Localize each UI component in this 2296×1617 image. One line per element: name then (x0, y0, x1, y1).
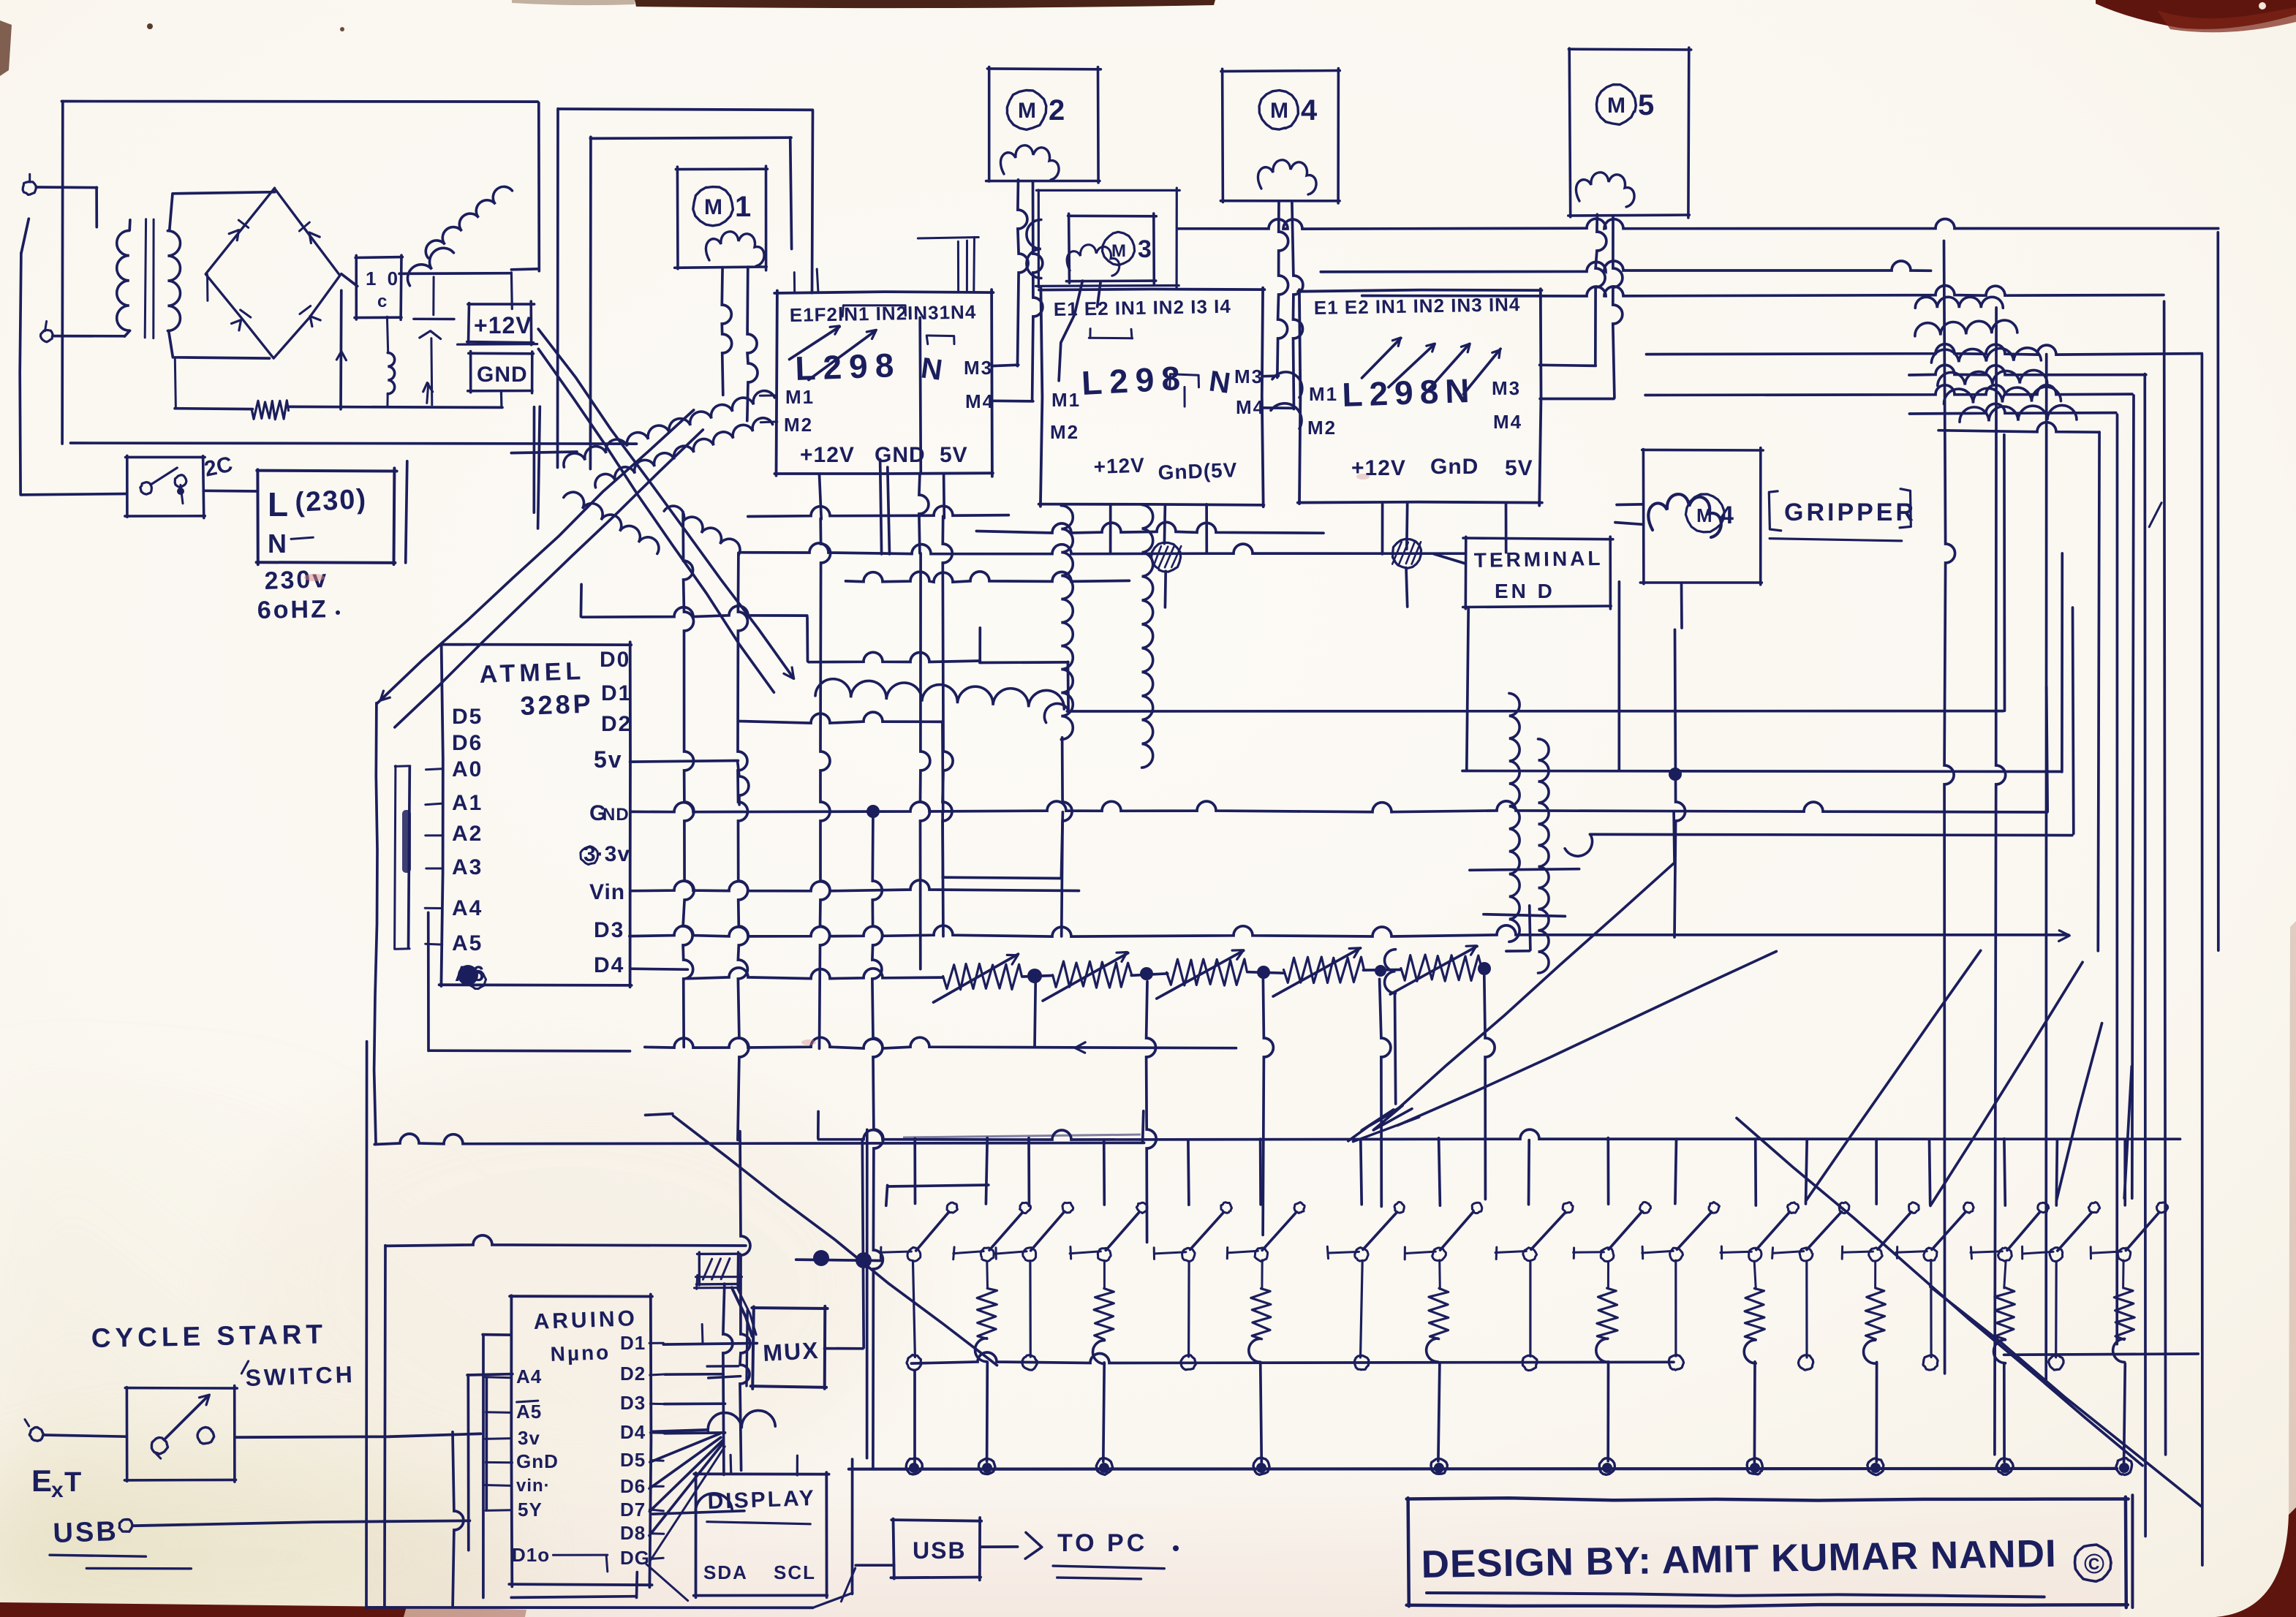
svg-text:5v: 5v (594, 746, 623, 773)
switch SW9 (1495, 1140, 1573, 1371)
photo background bottom-right rounded corner (2216, 921, 2296, 1617)
wire fan diag 4 (2124, 1067, 2131, 1198)
wire knot diag 2 (1397, 951, 1776, 1125)
nano pin D5 (620, 1449, 663, 1471)
wire bridge output down arrow (336, 290, 346, 409)
svg-text:2: 2 (1049, 94, 1065, 126)
wire bridge left stub (206, 274, 208, 300)
chip pin 5V (594, 746, 623, 773)
svg-text:D6: D6 (620, 1475, 646, 1497)
chip pin 33v (581, 842, 630, 866)
label L(230) (268, 484, 368, 523)
junction pot dot 3 (1257, 966, 1270, 979)
wire right vert 2660 (1944, 241, 1955, 1374)
svg-text:M2: M2 (784, 414, 813, 436)
label CYCLE START (91, 1319, 327, 1353)
wire pot feed left (687, 968, 943, 979)
svg-text:GRIPPER: GRIPPER (1784, 499, 1917, 526)
wire U1 M1 pin (760, 394, 777, 396)
svg-text:M2: M2 (1050, 421, 1079, 443)
svg-text:A5: A5 (516, 1401, 542, 1423)
wire usbbox arrow (981, 1532, 1042, 1559)
nano pin D6 (620, 1475, 663, 1497)
wire vert 1290 (943, 516, 953, 936)
svg-text:A5: A5 (452, 931, 483, 955)
svg-text:SCL: SCL (774, 1561, 816, 1583)
svg-text:A0: A0 (452, 757, 483, 781)
wire h 1190 (1470, 869, 1579, 871)
wire plug N to transformer (53, 335, 125, 338)
wire plug L to transformer (36, 187, 97, 227)
wire vert pair 1205 (880, 460, 890, 554)
svg-text:L298: L298 (1081, 358, 1188, 402)
wire M3 claw drop (1059, 281, 1100, 381)
chip pin A4 (425, 896, 483, 920)
wire below ATMEL h1437 (428, 912, 630, 1051)
svg-text:5V: 5V (940, 443, 968, 467)
svg-text:D3: D3 (594, 918, 624, 942)
wire usb to nano (133, 1493, 744, 1526)
wire right bus y512 (1909, 365, 2146, 375)
photo background bottom-left strip (0, 1602, 526, 1617)
svg-text:E1 E2 IN1 IN2 I3 I4: E1 E2 IN1 IN2 I3 I4 (1054, 295, 1232, 320)
svg-text:DISPLAY: DISPLAY (707, 1486, 816, 1514)
svg-text:M1: M1 (1309, 383, 1338, 405)
driver U1 pin M2 label (784, 414, 813, 436)
svg-text:M4: M4 (1236, 396, 1265, 418)
nano pin D9 (620, 1547, 663, 1569)
wire curlchain T1 (1509, 693, 1519, 942)
wire right vert 2870 (2098, 432, 2099, 951)
svg-text:c: c (377, 292, 387, 311)
svg-text:5: 5 (1638, 89, 1654, 121)
wire right bus y371 (1321, 261, 1930, 272)
svg-text:L: L (268, 485, 288, 523)
svg-text:DG: DG (620, 1547, 650, 1569)
driver U2 L298N box (1039, 288, 1265, 507)
wire nano bottom hook (511, 1572, 637, 1598)
wire transformer secondary top to bridge (170, 192, 275, 230)
svg-text:M: M (1111, 241, 1126, 261)
motor M5 box (1568, 48, 1691, 218)
switch SW1 (880, 1139, 957, 1474)
driver U3 pin M1 label (1309, 383, 1338, 405)
driver U3 top pin labels (1314, 293, 1521, 319)
nano pin D8 (620, 1522, 664, 1544)
svg-text:TERMINAL: TERMINAL (1474, 547, 1604, 572)
svg-text:EN D: EN D (1495, 580, 1555, 602)
switch area left dots (796, 1250, 882, 1268)
diode D1 (229, 220, 249, 241)
chip pin D5 (452, 705, 483, 729)
label 230V (264, 565, 329, 595)
nano pin D7 (620, 1499, 663, 1521)
wire bottom big-box left vert (365, 1042, 368, 1609)
wire left guide to pots (645, 1037, 1236, 1053)
title copyright (2075, 1545, 2112, 1581)
wire bottom big-box h1704 (385, 1235, 746, 1246)
svg-text:TO PC: TO PC (1057, 1529, 1147, 1557)
wire fan diag 3 (2057, 1023, 2102, 1200)
svg-text:D2: D2 (620, 1363, 646, 1385)
chip pin D3 (594, 918, 624, 942)
junction pot dot 5 (1478, 962, 1491, 975)
svg-text:M: M (1607, 94, 1625, 118)
svg-text:GND: GND (875, 443, 926, 467)
motor M6 gripper claw (1648, 494, 1734, 537)
wire U1 5V stub (943, 474, 945, 518)
nano pin A5 (486, 1401, 543, 1423)
label N (268, 529, 313, 558)
svg-text:E: E (31, 1463, 52, 1498)
svg-text:D1: D1 (601, 681, 632, 705)
label GND box (458, 344, 537, 393)
wire bus 757 hatched (739, 543, 1465, 554)
svg-text:GND: GND (477, 363, 528, 387)
label TO PC (1053, 1529, 1179, 1579)
wire U3 M1 pin curl (1271, 372, 1302, 428)
chip pin D2 (601, 712, 632, 736)
node usb terminal (119, 1520, 132, 1532)
driver U3 pin M4 label (1493, 411, 1522, 433)
diode D4 (300, 306, 320, 327)
svg-text:6oHZ: 6oHZ (257, 595, 328, 624)
wire L230 right edge (406, 461, 407, 563)
svg-text:A2: A2 (452, 822, 483, 846)
capacitor C1 (414, 277, 454, 405)
ink blot left bracket (402, 810, 411, 873)
wire node1 drop (1164, 571, 1167, 607)
wire right vert 2917 (2132, 395, 2134, 1198)
svg-text:x: x (51, 1478, 64, 1502)
wire nano A-side collector (453, 1378, 486, 1607)
wire nano left outline (467, 1335, 513, 1598)
label 2C (203, 452, 235, 482)
wire M4 claw drop 1 (1277, 201, 1288, 378)
wire U1 M3 pin (992, 365, 1019, 366)
wire GND bus (630, 686, 2047, 812)
junction pot dot 4 (1375, 965, 1386, 977)
display pins (703, 1561, 816, 1583)
display label (707, 1486, 817, 1524)
svg-text:(230): (230) (294, 484, 368, 518)
wire M5 claw drop 2 (1613, 216, 1623, 398)
wire right vert 3034 (2216, 232, 2219, 950)
wire diag right low2 (1930, 1287, 2201, 1506)
photo background top edge strip (512, 0, 1215, 8)
svg-text:D3: D3 (620, 1392, 646, 1414)
switch SW17 (2023, 1140, 2100, 1370)
svg-text:D6: D6 (452, 731, 483, 755)
label ExT (31, 1463, 81, 1502)
wire pot chain gaps (1022, 970, 1400, 977)
wire switch top bus (818, 1112, 2180, 1140)
switch SW11 (1642, 1140, 1720, 1371)
inductor L1 (387, 317, 394, 406)
svg-text:A3: A3 (452, 855, 483, 879)
wire U1 M4 pin (991, 399, 1033, 402)
wire U2 M4 pin (1263, 406, 1293, 409)
chip pin A1 (426, 791, 483, 815)
driver U2 title (1081, 358, 1233, 402)
wire diag right low (1737, 1118, 2142, 1466)
display top stub (730, 1455, 797, 1475)
driver U1 top pin labels (790, 301, 977, 326)
wire pot drop 5 (1484, 976, 1495, 1200)
wire h 1200 mid (943, 812, 1062, 879)
svg-text:+12V: +12V (1093, 454, 1145, 478)
wire knot vert (1385, 950, 1396, 1104)
switch S1 contacts (140, 468, 186, 504)
svg-text:4: 4 (1720, 501, 1734, 529)
svg-text:M: M (1018, 99, 1036, 123)
wire bus 728 (976, 522, 1323, 533)
wire right bus y484 (1647, 344, 2202, 355)
svg-text:D2: D2 (601, 712, 632, 736)
wire right small tick (2149, 503, 2161, 527)
vert channel 990 (723, 1284, 733, 1474)
wire mux right (825, 1139, 864, 1348)
knot scribble (1348, 1105, 1419, 1141)
wire gripper drop (1680, 583, 1683, 628)
wire h 972 (1044, 435, 2004, 723)
wire switch mid bus right (2004, 1354, 2199, 1355)
wire nano D4 h (665, 1431, 725, 1435)
wire power outer frame left (61, 102, 64, 444)
motor M4 box (1220, 69, 1340, 203)
nano pin D10 (512, 1544, 608, 1572)
wire GND diagonal feed (538, 349, 774, 692)
driver U1 arrow in1 (790, 326, 840, 360)
wire left drop pair (815, 1129, 867, 1607)
title text (1421, 1532, 2057, 1586)
wire bus 710 (748, 506, 1009, 516)
wire S1 to L230 (204, 489, 258, 492)
wire U3 5V stub (1505, 503, 1508, 553)
wire bundle curl E (664, 506, 740, 555)
svg-text:5V: 5V (1505, 456, 1533, 480)
wire transformer secondary bottom to bridge (169, 330, 270, 358)
wire bottom big-box left vert2 (385, 1246, 385, 1607)
wire switch bottom bus (849, 1467, 2117, 1471)
svg-text:A4: A4 (516, 1366, 542, 1387)
wire frame R2 left (589, 137, 592, 469)
nano pin D1 (620, 1332, 663, 1354)
switch SW3 (995, 1138, 1073, 1371)
wire vert 1194 (872, 813, 883, 1469)
switch SW18 with resistor (2091, 1140, 2168, 1475)
svg-text:3: 3 (1138, 235, 1152, 263)
svg-text:M1: M1 (785, 386, 815, 408)
svg-text:D0: D0 (600, 648, 630, 672)
wire U1 +12V stub (820, 474, 822, 519)
label +12V box (467, 301, 535, 345)
svg-text:+12V: +12V (474, 312, 532, 338)
svg-text:USB: USB (53, 1516, 119, 1549)
driver U2 pin M2 label (1050, 421, 1079, 443)
switch SW16 with resistor (1971, 1139, 2049, 1475)
wire switch to nano (235, 1411, 776, 1438)
display box (694, 1472, 829, 1597)
svg-text:M3: M3 (964, 357, 993, 379)
photo background top-left marks (0, 20, 344, 76)
wire right bus y411 (1362, 286, 2164, 296)
wire +12V diagonal feed (538, 329, 793, 678)
wire M1 claw drop 1 (722, 268, 731, 395)
wire U3 +12V stub (1381, 504, 1384, 554)
wire U2 M3 pin (1264, 374, 1279, 377)
smudge marks (304, 474, 1370, 1045)
driver U2 bracket mark (1170, 374, 1199, 406)
wire U2 +12V stub (1109, 504, 1112, 553)
diode D3 (232, 310, 251, 330)
usb box (891, 1518, 981, 1580)
wire M2 claw drop 1 (1018, 180, 1029, 366)
wire M5 claw drop 1 (1596, 214, 1606, 365)
chip pin A6 blot (455, 962, 486, 989)
svg-text:1: 1 (735, 191, 751, 223)
wire stub 619 (511, 452, 577, 453)
potentiometer VR1 (934, 954, 1022, 1002)
photo background top-right corner blob (2096, 0, 2296, 32)
wire node2 drop (1406, 568, 1408, 607)
potentiometer VR5 (1390, 946, 1481, 994)
svg-text:D1o: D1o (512, 1544, 550, 1566)
junction pot dot 2 (1140, 967, 1153, 980)
driver U1 L298N box (774, 289, 993, 477)
wire transformer primary top (124, 220, 130, 336)
transformer T1 secondary coil (167, 231, 180, 331)
wire right vert 2729 (1995, 308, 2006, 1455)
wire usbbox left (841, 1565, 894, 1602)
potentiometer VR3 (1157, 950, 1247, 999)
wire plug left drop (20, 219, 126, 495)
driver U2 top pin labels (1054, 295, 1232, 320)
wire right vert 3012 (2201, 355, 2204, 1565)
label GRIPPER (1769, 489, 1917, 541)
wire diag to midbus (646, 1114, 997, 1366)
box L(230) (257, 468, 397, 564)
wire 5V bus (630, 761, 749, 805)
wire right vert 2895 (2115, 414, 2118, 1344)
wire diag roof upper (377, 410, 694, 703)
wire gripper feed top (1615, 504, 1643, 524)
wire vert 2291 (1674, 629, 1685, 937)
wire gnd box bottom stub (500, 391, 503, 406)
motor M3 box (1066, 213, 1156, 284)
wire right vert 2799 (2044, 355, 2047, 1382)
wire bus757 into terminal end (1434, 554, 1465, 564)
switch SW14 with resistor (1842, 1140, 1919, 1475)
svg-text:vin·: vin· (516, 1476, 551, 1496)
svg-text:3v: 3v (518, 1427, 540, 1449)
diode D2 (299, 222, 320, 243)
wire switch mid bus (911, 1352, 1674, 1363)
label SWITCH (241, 1361, 355, 1391)
svg-text:M3: M3 (1492, 377, 1521, 399)
wire roof left drop (374, 703, 377, 1143)
wire bridge output right (341, 274, 358, 287)
wire right bus y566 (1909, 404, 2115, 414)
wire h 1252 (1484, 914, 1565, 917)
wire sub-bus 1622 (886, 1185, 989, 1205)
wire vert 1122 (820, 518, 831, 1048)
svg-text:GnD: GnD (1430, 455, 1479, 479)
wire frame R2 top (590, 137, 791, 138)
wire knot diag 1 (1389, 812, 1674, 1116)
chip ATMEL328P box (439, 642, 632, 987)
wire curlchain U2gnd (1142, 504, 1153, 768)
switch SW4 with resistor (1070, 1140, 1147, 1475)
label USB (50, 1516, 191, 1569)
svg-text:USB: USB (913, 1537, 967, 1564)
wire right bus y540 (1645, 385, 2132, 395)
svg-text:D5: D5 (620, 1449, 646, 1471)
driver U3 bottom labels (1351, 455, 1533, 480)
driver U3 in arrows (1362, 338, 1501, 394)
wire M2 claw drop 2 (1032, 181, 1043, 400)
title underline (1427, 1593, 2044, 1597)
wire pot drop 2 (1147, 982, 1157, 1243)
svg-text:ARUINO: ARUINO (533, 1306, 638, 1334)
wire frame R1 right (812, 110, 813, 293)
junction hatched node 2 (1392, 539, 1421, 568)
motor M2 box (986, 67, 1101, 183)
svg-text:©: © (2084, 1549, 2104, 1580)
wire right hop cluster (1915, 297, 2077, 422)
driver U2 top stub lines (1089, 329, 1132, 338)
driver U3 pin M2 label (1307, 417, 1337, 439)
wire bundle curl C (595, 418, 773, 488)
wire pot right tail (1506, 906, 1530, 951)
driver U2 pin M1 label (1051, 389, 1081, 411)
wire bundle curl B (564, 391, 774, 467)
wire bus 795 (846, 572, 1130, 582)
chip ARDUINO NANO box (509, 1295, 652, 1588)
wire power outer frame top (61, 100, 537, 103)
wire gripper right drop (1617, 582, 1620, 770)
switch SW13 (1772, 1139, 1849, 1370)
driver U1 IN3 IN4 stubs (918, 237, 978, 292)
wire U1 M2 pin (760, 420, 777, 423)
svg-text:D4: D4 (594, 953, 624, 977)
svg-text:M: M (1696, 504, 1712, 526)
wire bundle curl A (408, 186, 513, 285)
potentiometer VR2 (1043, 953, 1132, 1001)
wire dc top bus (399, 269, 537, 309)
usb label (913, 1537, 967, 1564)
switch SW2 with resistor (953, 1138, 1031, 1474)
nano pin D4 (620, 1421, 664, 1443)
switch SW7 (1327, 1140, 1404, 1370)
connector hatched box (695, 1252, 742, 1290)
svg-text:D4: D4 (620, 1421, 646, 1443)
wire nano D3 h (664, 1402, 725, 1405)
svg-text:Vin: Vin (589, 880, 625, 904)
driver U1 divider (920, 318, 921, 474)
switch S1 box (125, 455, 205, 518)
wire curl after arrow (815, 679, 1064, 709)
svg-text:N: N (919, 352, 945, 387)
switch SW15 (1896, 1140, 1974, 1370)
switch SW12 with resistor (1721, 1139, 1799, 1474)
chip pin A3 (426, 855, 483, 879)
motor M3 left bump (1027, 220, 1041, 279)
motor M1 box (675, 166, 768, 270)
wire frame R2 right (790, 137, 792, 249)
wire vert 1258 (921, 553, 930, 969)
wire nano D1 to mux (663, 1325, 757, 1345)
